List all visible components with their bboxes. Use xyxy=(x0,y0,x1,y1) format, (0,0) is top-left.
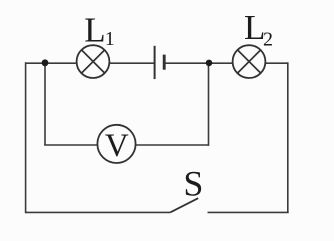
wire L1 to battery xyxy=(109,62,154,64)
wire voltmeter branch right vertical (up to node B) xyxy=(208,63,210,146)
battery cell (long plate + short plate) xyxy=(155,46,165,79)
svg-text:V: V xyxy=(105,128,129,164)
node B junction dot xyxy=(206,60,213,67)
lamp L1 (circle with X) xyxy=(77,45,110,78)
svg-text:1: 1 xyxy=(105,28,115,50)
wire bottom-right (corner to switch) xyxy=(208,211,289,213)
wire right vertical xyxy=(287,62,289,212)
wire voltmeter branch left vertical (node A down) xyxy=(44,63,46,145)
switch S blade (open) xyxy=(170,198,198,212)
wire bottom-left (switch to corner) xyxy=(26,211,171,213)
wire voltmeter to right riser xyxy=(136,144,209,146)
svg-text:2: 2 xyxy=(263,29,273,51)
node A junction dot xyxy=(42,59,49,66)
lamp L2 (circle with X) xyxy=(233,45,266,78)
wire top-left horizontal (left corner to lamp L1) xyxy=(26,62,77,64)
wire battery to lamp L2 xyxy=(164,62,233,64)
voltmeter V (circle with letter V) xyxy=(97,125,135,164)
wire L2 to top-right corner xyxy=(265,62,287,64)
svg-text:S: S xyxy=(183,164,203,204)
wire left vertical xyxy=(25,62,27,213)
wire voltmeter branch lower-left horizontal xyxy=(44,144,97,146)
svg-text:L: L xyxy=(84,11,105,50)
